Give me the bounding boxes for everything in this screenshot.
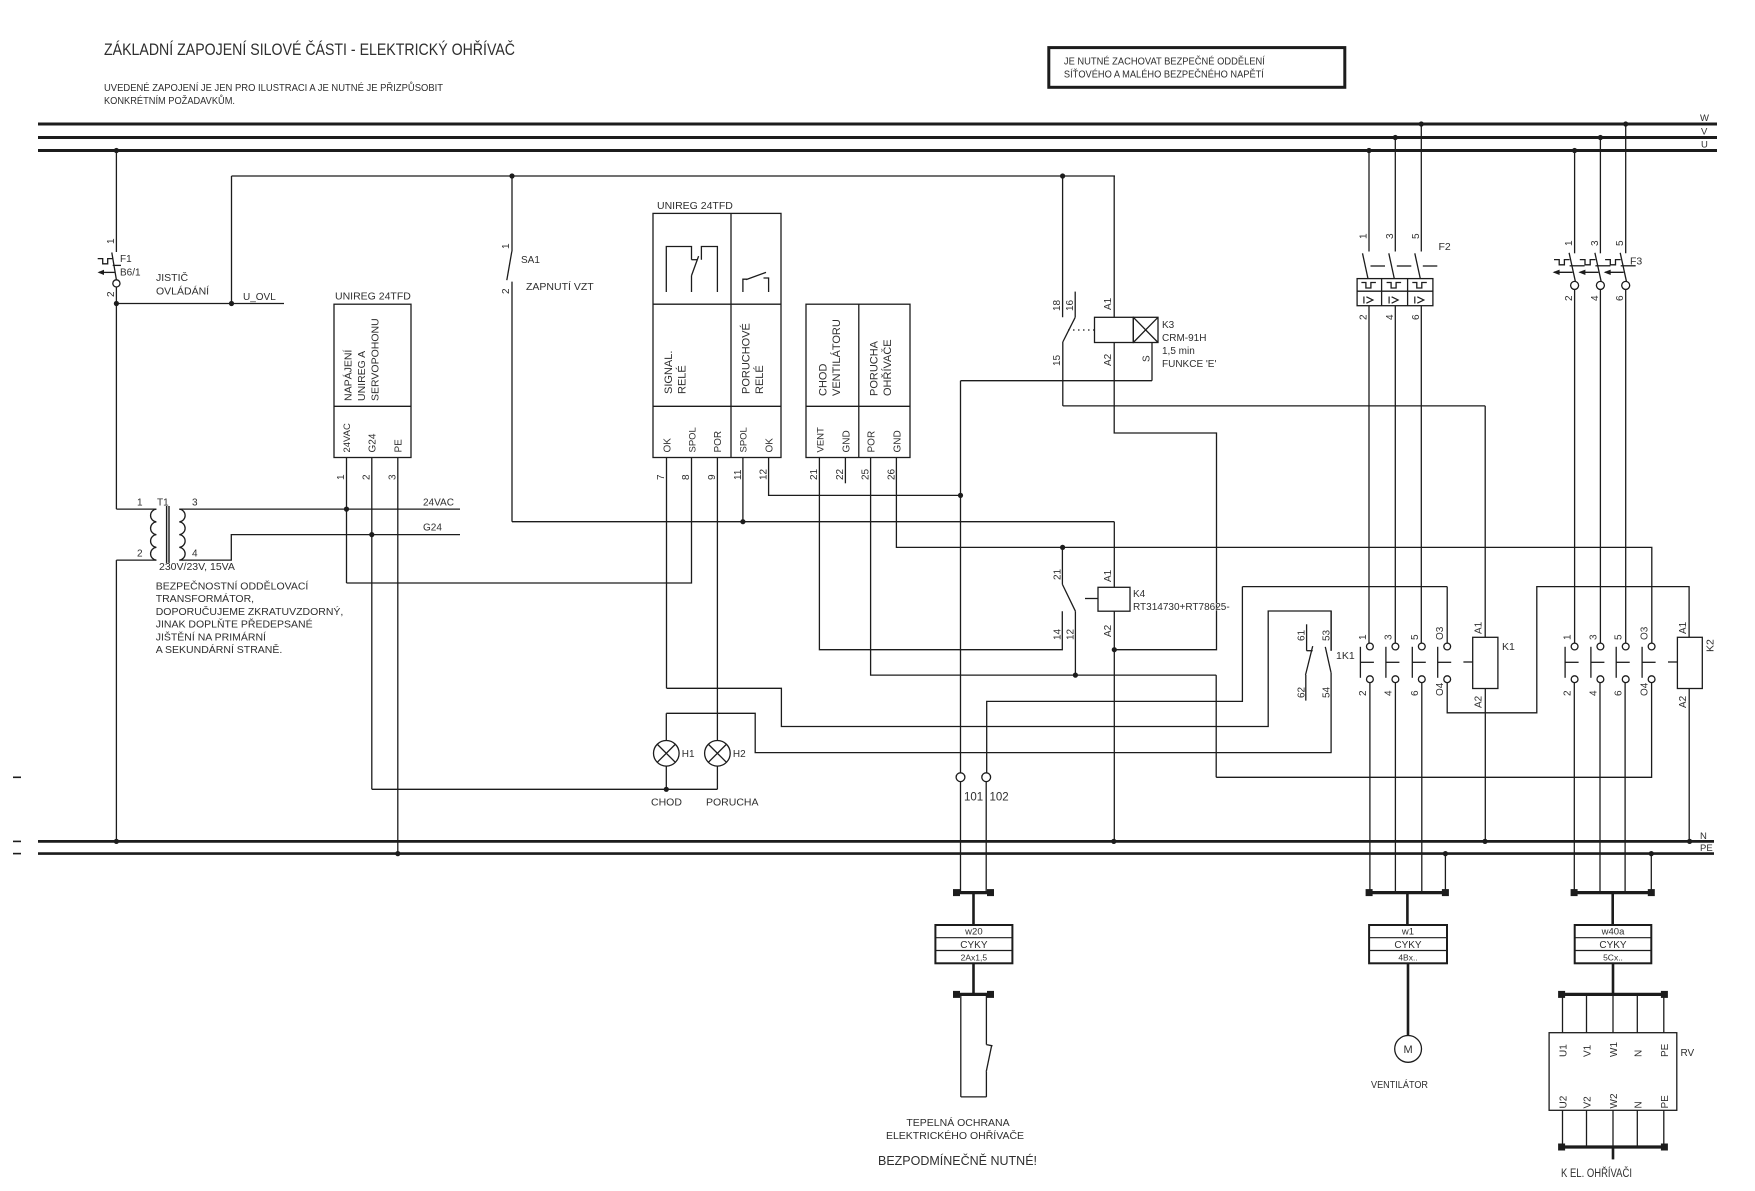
svg-text:POR: POR [867, 431, 878, 453]
svg-text:3: 3 [1385, 233, 1396, 239]
svg-text:B6/1: B6/1 [120, 268, 141, 279]
svg-text:K EL. OHŘÍVAČI: K EL. OHŘÍVAČI [1561, 1167, 1632, 1180]
svg-text:12: 12 [759, 468, 770, 480]
svg-text:H1: H1 [682, 749, 695, 760]
svg-text:VENT: VENT [815, 427, 826, 453]
svg-text:DOPORUČUJEME ZKRATUVZDORNÝ,: DOPORUČUJEME ZKRATUVZDORNÝ, [156, 605, 344, 618]
svg-text:w40a: w40a [1601, 927, 1625, 938]
svg-text:1: 1 [1358, 634, 1369, 640]
svg-text:RV: RV [1681, 1048, 1695, 1059]
svg-text:24VAC: 24VAC [342, 423, 353, 453]
svg-text:RELÉ: RELÉ [676, 365, 689, 394]
svg-text:16: 16 [1065, 299, 1076, 311]
svg-text:SERVOPOHONU: SERVOPOHONU [370, 318, 382, 401]
svg-text:A2: A2 [1474, 695, 1485, 708]
svg-text:15: 15 [1052, 354, 1063, 366]
svg-text:U1: U1 [1559, 1044, 1570, 1057]
svg-text:PE: PE [1700, 843, 1713, 854]
svg-text:2: 2 [361, 474, 372, 480]
svg-text:12: 12 [1066, 628, 1077, 640]
svg-text:2: 2 [1358, 690, 1369, 696]
svg-text:A1: A1 [1103, 569, 1114, 582]
svg-text:w20: w20 [964, 927, 982, 938]
svg-text:VENTILÁTORU: VENTILÁTORU [830, 319, 843, 396]
svg-text:3: 3 [1383, 634, 1394, 640]
svg-text:2: 2 [106, 291, 117, 297]
svg-text:U: U [1701, 140, 1708, 151]
svg-text:K1: K1 [1502, 641, 1515, 653]
svg-text:1: 1 [106, 238, 117, 244]
svg-text:21: 21 [809, 468, 820, 480]
svg-text:TRANSFORMÁTOR,: TRANSFORMÁTOR, [156, 592, 254, 605]
svg-text:V: V [1701, 127, 1708, 138]
svg-text:A1: A1 [1474, 621, 1485, 634]
svg-text:A2: A2 [1103, 624, 1114, 637]
svg-text:G24: G24 [368, 433, 379, 452]
svg-text:62: 62 [1297, 686, 1308, 698]
svg-text:JE NUTNÉ ZACHOVAT BEZPEČNÉ ODD: JE NUTNÉ ZACHOVAT BEZPEČNÉ ODDĚLENÍ [1064, 55, 1265, 68]
svg-text:W1: W1 [1609, 1042, 1620, 1057]
svg-text:K2: K2 [1705, 639, 1717, 652]
svg-text:PE: PE [1660, 1095, 1671, 1109]
svg-text:PE: PE [394, 439, 405, 453]
svg-text:4: 4 [1590, 295, 1601, 301]
svg-text:FUNKCE 'E': FUNKCE 'E' [1162, 359, 1216, 370]
svg-text:6: 6 [1614, 690, 1625, 696]
svg-text:PORUCHA: PORUCHA [706, 797, 759, 809]
svg-text:w1: w1 [1401, 927, 1414, 938]
svg-text:14: 14 [1053, 628, 1064, 640]
svg-text:VENTILÁTOR: VENTILÁTOR [1371, 1078, 1428, 1091]
svg-text:A2: A2 [1678, 695, 1689, 708]
svg-text:2: 2 [1564, 295, 1575, 301]
svg-text:26: 26 [886, 468, 897, 480]
svg-text:JINAK DOPLŇTE PŘEDEPSANÉ: JINAK DOPLŇTE PŘEDEPSANÉ [156, 618, 313, 631]
svg-text:A2: A2 [1103, 353, 1114, 366]
svg-text:230V/23V, 15VA: 230V/23V, 15VA [159, 561, 235, 573]
svg-text:2: 2 [137, 549, 143, 560]
svg-text:5Cx..: 5Cx.. [1603, 952, 1623, 962]
svg-text:N: N [1633, 1050, 1644, 1057]
svg-text:3: 3 [1590, 240, 1601, 246]
svg-text:W2: W2 [1609, 1093, 1620, 1108]
svg-text:KONKRÉTNÍM POŽADAVKŮM.: KONKRÉTNÍM POŽADAVKŮM. [104, 94, 235, 107]
svg-text:K3: K3 [1162, 320, 1175, 331]
svg-text:101: 101 [964, 792, 983, 804]
svg-text:5: 5 [1410, 634, 1421, 640]
svg-text:A SEKUNDÁRNÍ STRANĚ.: A SEKUNDÁRNÍ STRANĚ. [156, 643, 283, 656]
svg-text:5: 5 [1411, 233, 1422, 239]
svg-text:8: 8 [681, 474, 692, 480]
svg-text:PORUCHOVÉ: PORUCHOVÉ [740, 323, 753, 394]
svg-text:N: N [1633, 1101, 1644, 1108]
svg-text:SPOL: SPOL [687, 427, 698, 452]
svg-text:22: 22 [835, 468, 846, 480]
svg-text:5: 5 [1614, 634, 1625, 640]
svg-text:ELEKTRICKÉHO OHŘÍVAČE: ELEKTRICKÉHO OHŘÍVAČE [886, 1129, 1024, 1142]
svg-text:A1: A1 [1103, 297, 1114, 310]
svg-text:F2: F2 [1439, 241, 1451, 253]
svg-text:RELÉ: RELÉ [753, 365, 766, 394]
svg-text:A1: A1 [1678, 621, 1689, 634]
svg-text:25: 25 [861, 468, 872, 480]
svg-text:53: 53 [1322, 629, 1333, 641]
svg-text:BEZPODMÍNEČNĚ NUTNÉ!: BEZPODMÍNEČNĚ NUTNÉ! [878, 1153, 1037, 1168]
svg-text:4: 4 [1385, 314, 1396, 320]
svg-text:S: S [1142, 355, 1153, 362]
svg-text:CYKY: CYKY [960, 940, 988, 951]
svg-text:SÍŤOVÉHO A MALÉHO BEZPEČNÉHO N: SÍŤOVÉHO A MALÉHO BEZPEČNÉHO NAPĚTÍ [1064, 68, 1264, 81]
svg-text:GND: GND [892, 430, 903, 452]
svg-text:1: 1 [1359, 233, 1370, 239]
svg-text:M: M [1404, 1044, 1413, 1056]
svg-text:54: 54 [1322, 686, 1333, 698]
svg-text:1,5 min: 1,5 min [1162, 346, 1195, 357]
svg-text:4: 4 [192, 549, 198, 560]
svg-text:TEPELNÁ OCHRANA: TEPELNÁ OCHRANA [906, 1116, 1009, 1129]
svg-text:UNIREG 24TFD: UNIREG 24TFD [335, 291, 411, 303]
svg-text:N: N [1700, 831, 1707, 842]
svg-text:CHOD: CHOD [818, 364, 830, 396]
svg-text:F1: F1 [120, 254, 132, 265]
svg-text:2: 2 [501, 288, 512, 294]
svg-text:2Ax1,5: 2Ax1,5 [961, 952, 988, 962]
svg-text:6: 6 [1615, 295, 1626, 301]
svg-text:POR: POR [713, 431, 724, 453]
svg-text:CYKY: CYKY [1394, 940, 1422, 951]
svg-text:6: 6 [1410, 690, 1421, 696]
svg-text:ZAPNUTÍ VZT: ZAPNUTÍ VZT [526, 280, 594, 293]
svg-text:O3: O3 [1640, 626, 1651, 640]
svg-text:JISTIČ: JISTIČ [156, 271, 189, 284]
svg-text:CRM-91H: CRM-91H [1162, 333, 1206, 344]
svg-text:CYKY: CYKY [1599, 940, 1627, 951]
svg-text:1: 1 [137, 498, 143, 509]
svg-text:O3: O3 [1435, 626, 1446, 640]
svg-text:1: 1 [336, 474, 347, 480]
svg-text:K4: K4 [1133, 589, 1146, 600]
svg-text:OVLÁDÁNÍ: OVLÁDÁNÍ [156, 285, 209, 298]
svg-text:4: 4 [1383, 690, 1394, 696]
svg-text:1: 1 [1563, 634, 1574, 640]
svg-text:NAPÁJENÍ: NAPÁJENÍ [342, 350, 355, 401]
svg-text:1: 1 [1564, 240, 1575, 246]
svg-text:GND: GND [841, 430, 852, 452]
svg-text:24VAC: 24VAC [423, 498, 454, 509]
svg-text:O4: O4 [1640, 682, 1651, 696]
svg-text:PE: PE [1660, 1043, 1671, 1057]
svg-text:9: 9 [707, 474, 718, 480]
svg-text:PORUCHA: PORUCHA [869, 340, 881, 396]
svg-text:3: 3 [1588, 634, 1599, 640]
svg-text:OK: OK [662, 438, 673, 453]
svg-text:O4: O4 [1435, 682, 1446, 696]
svg-text:2: 2 [1563, 690, 1574, 696]
svg-text:1: 1 [501, 243, 512, 249]
svg-text:UVEDENÉ ZAPOJENÍ JE JEN PRO IL: UVEDENÉ ZAPOJENÍ JE JEN PRO ILUSTRACI A … [104, 81, 443, 94]
svg-text:H2: H2 [733, 749, 746, 760]
svg-text:OHŘÍVAČE: OHŘÍVAČE [881, 339, 894, 396]
svg-text:ZÁKLADNÍ ZAPOJENÍ SILOVÉ ČÁSTI: ZÁKLADNÍ ZAPOJENÍ SILOVÉ ČÁSTI - ELEKTRI… [104, 40, 515, 59]
svg-text:1K1: 1K1 [1336, 650, 1355, 662]
svg-text:4: 4 [1588, 690, 1599, 696]
svg-text:V2: V2 [1583, 1096, 1594, 1109]
svg-text:OK: OK [764, 438, 775, 453]
svg-text:W: W [1700, 113, 1709, 124]
svg-text:3: 3 [387, 474, 398, 480]
svg-text:U2: U2 [1559, 1095, 1570, 1108]
svg-text:UNIREG A: UNIREG A [356, 351, 368, 401]
svg-text:RT314730+RT78625-: RT314730+RT78625- [1133, 602, 1230, 613]
svg-text:5: 5 [1615, 240, 1626, 246]
svg-text:JIŠTĚNÍ NA PRIMÁRNÍ: JIŠTĚNÍ NA PRIMÁRNÍ [156, 630, 266, 643]
svg-text:SIGNAL.: SIGNAL. [663, 351, 675, 394]
svg-text:18: 18 [1052, 299, 1063, 311]
svg-text:21: 21 [1053, 568, 1064, 580]
svg-text:6: 6 [1411, 314, 1422, 320]
svg-text:2: 2 [1359, 314, 1370, 320]
svg-text:7: 7 [656, 474, 667, 480]
svg-text:3: 3 [192, 498, 198, 509]
svg-text:4Bx..: 4Bx.. [1398, 952, 1417, 962]
svg-text:CHOD: CHOD [651, 797, 682, 809]
svg-text:G24: G24 [423, 523, 442, 534]
svg-text:102: 102 [990, 792, 1009, 804]
svg-text:T1: T1 [157, 498, 169, 509]
svg-text:SPOL: SPOL [739, 427, 750, 452]
svg-text:SA1: SA1 [521, 255, 540, 266]
svg-text:U_OVL: U_OVL [243, 292, 276, 303]
svg-text:BEZPEČNOSTNÍ ODDĚLOVACÍ: BEZPEČNOSTNÍ ODDĚLOVACÍ [156, 580, 309, 593]
svg-text:V1: V1 [1583, 1044, 1594, 1057]
svg-text:UNIREG 24TFD: UNIREG 24TFD [657, 200, 733, 212]
svg-text:F3: F3 [1630, 256, 1642, 268]
svg-text:61: 61 [1297, 629, 1308, 641]
